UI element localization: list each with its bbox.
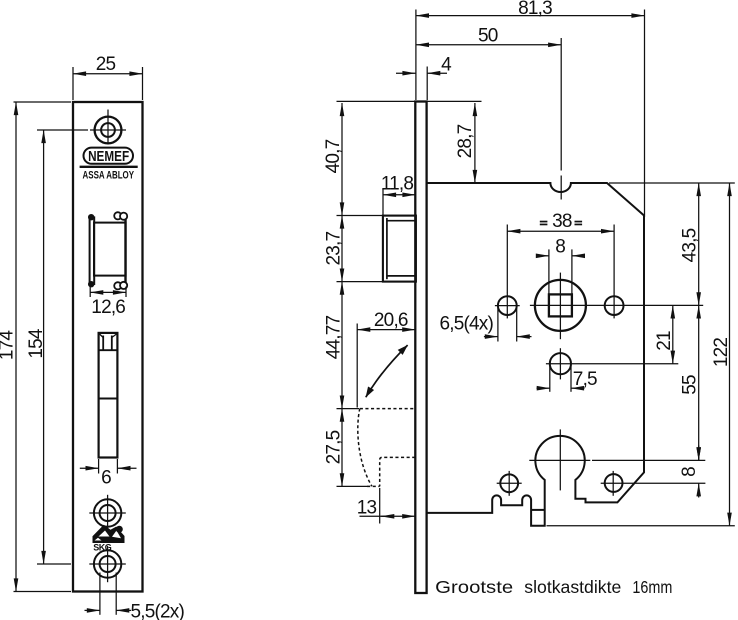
svg-text:8: 8 [555,236,565,257]
svg-text:27,5: 27,5 [324,430,345,464]
svg-text:38: 38 [552,211,572,232]
svg-text:21: 21 [654,331,675,351]
svg-text:6: 6 [101,468,111,489]
svg-text:81,3: 81,3 [518,0,552,19]
svg-text:28,7: 28,7 [455,124,476,158]
svg-text:20,6: 20,6 [374,310,408,331]
svg-text:4: 4 [441,55,452,76]
svg-text:SKG: SKG [93,543,112,553]
svg-text:55: 55 [680,375,701,395]
svg-text:7,5: 7,5 [573,369,597,390]
svg-text:Grootste: Grootste [435,577,513,597]
svg-text:50: 50 [478,26,498,47]
svg-text:43,5: 43,5 [680,228,701,262]
svg-text:NEMEF: NEMEF [88,148,129,165]
svg-text:12,6: 12,6 [91,297,125,318]
svg-text:11,8: 11,8 [381,174,414,195]
svg-text:44,77: 44,77 [324,315,345,359]
svg-text:slotkastdikte: slotkastdikte [524,577,621,597]
svg-text:122: 122 [711,338,732,368]
svg-text:6,5(4x): 6,5(4x) [440,313,494,334]
svg-text:ASSA ABLOY: ASSA ABLOY [83,169,135,181]
svg-text:40,7: 40,7 [323,139,344,173]
svg-text:13: 13 [357,498,377,519]
svg-text:5,5(2x): 5,5(2x) [131,602,185,620]
svg-text:23,7: 23,7 [324,231,345,265]
svg-text:25: 25 [96,54,116,75]
svg-text:154: 154 [26,328,47,359]
svg-text:8: 8 [679,467,700,477]
svg-text:174: 174 [0,330,18,361]
svg-text:16mm: 16mm [632,577,672,597]
